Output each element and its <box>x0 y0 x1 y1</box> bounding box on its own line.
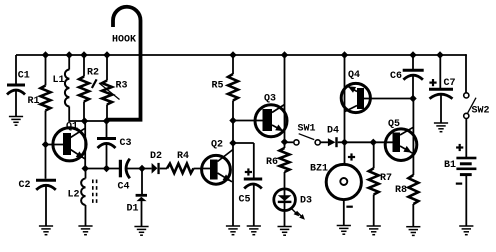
capacitor C2 <box>19 180 57 191</box>
wire SW1 to D4 <box>321 141 329 143</box>
diode D2 <box>150 151 162 174</box>
led D3 <box>274 189 312 211</box>
ground under Q2 emitter line <box>226 226 240 235</box>
ground under C2 <box>39 226 53 235</box>
ground under R7 <box>367 226 381 235</box>
wire rail to R5 <box>232 55 234 74</box>
resistor R5 <box>212 74 239 101</box>
node C6 Q4 Q5 junction <box>409 95 416 102</box>
ground under C1 <box>9 117 23 126</box>
wire L1 to horizontal bus <box>69 107 106 122</box>
wire rail to L1 <box>68 55 70 70</box>
capacitor C4 <box>118 159 130 193</box>
svg-text:Q4: Q4 <box>348 70 360 81</box>
wire rail to Q4 and BZ1 <box>344 55 346 165</box>
wire C4 to D2 <box>127 168 152 170</box>
resistor R8 <box>395 175 418 204</box>
wire R2 down <box>83 102 85 122</box>
capacitor C7 <box>429 78 456 99</box>
diode D4 <box>327 125 339 147</box>
svg-text:L1: L1 <box>53 75 65 86</box>
svg-text:HOOK: HOOK <box>112 35 136 46</box>
wire R5 down to ground <box>232 101 234 227</box>
node D1 top <box>138 165 145 172</box>
node Q1 base junction <box>42 141 49 148</box>
node R2 bottom junction <box>81 117 88 124</box>
node rail C7 <box>436 51 443 58</box>
svg-text:R5: R5 <box>212 80 224 91</box>
svg-text:Q5: Q5 <box>388 119 400 130</box>
node R3 C3 hook junction <box>103 117 110 124</box>
svg-text:R7: R7 <box>380 173 392 184</box>
transistor Q4 <box>341 70 370 113</box>
node rail Q4 <box>341 51 348 58</box>
wire Q1 collector-emitter vertical <box>84 121 86 169</box>
wire rail to C7 <box>439 55 441 88</box>
svg-text:D2: D2 <box>150 151 162 162</box>
resistor R1 <box>28 86 51 111</box>
svg-text:C7: C7 <box>444 78 456 89</box>
svg-text:R1: R1 <box>28 96 40 107</box>
wire R3 down <box>106 105 108 122</box>
ground under D3 <box>278 227 292 236</box>
node C3 bottom <box>103 165 110 172</box>
wire bus to C3 <box>106 121 108 137</box>
inductor L1 <box>53 70 70 107</box>
node rail R1 <box>42 51 49 58</box>
node rail C6 <box>409 51 416 58</box>
node Q3 base junction <box>229 117 236 124</box>
ground under C7 <box>434 123 448 132</box>
wire emitter bus to L2 <box>85 169 87 179</box>
wire Q5 collector-emitter line <box>412 99 414 176</box>
wire left drop to C1 <box>15 55 17 84</box>
svg-text:L2: L2 <box>68 189 80 200</box>
wire D1 to ground <box>141 201 143 227</box>
svg-text:Q2: Q2 <box>211 140 223 151</box>
node Q3 emitter junction <box>281 138 288 145</box>
node rail Q3 collector <box>281 51 288 58</box>
svg-text:C4: C4 <box>118 181 130 192</box>
svg-text:SW2: SW2 <box>472 106 490 117</box>
resistor R3 trimmer <box>92 79 128 104</box>
node L2 top <box>82 165 89 172</box>
svg-text:Q1: Q1 <box>66 122 78 133</box>
svg-text:SW1: SW1 <box>298 123 316 134</box>
wire rail to Q3 collector line <box>284 55 286 148</box>
capacitor C5 <box>239 168 263 205</box>
transistor Q5 <box>385 119 417 161</box>
svg-text:C6: C6 <box>390 71 402 82</box>
svg-text:D4: D4 <box>327 125 339 136</box>
node Q2 collector junction <box>229 139 236 146</box>
buzzer BZ1 <box>310 153 361 207</box>
wire SW2 to B1 <box>465 119 467 157</box>
wire Q4 base <box>364 98 413 100</box>
transistor Q2 <box>202 140 233 185</box>
capacitor C1 <box>7 70 30 116</box>
svg-text:R4: R4 <box>177 151 189 162</box>
wire R1 to Q1 base and C2 <box>45 111 47 179</box>
svg-text:B1: B1 <box>444 160 456 171</box>
node D4 BZ1 junction <box>341 139 348 146</box>
wire R6 to D3 <box>284 172 286 226</box>
wire Q1 emitter bus segment <box>85 168 119 170</box>
wire R8 to ground <box>412 204 414 226</box>
resistor R2 <box>79 68 99 102</box>
wire B1 to ground <box>465 176 467 226</box>
ground under C5 <box>247 226 261 235</box>
wire L2 to ground <box>85 205 87 226</box>
node rail L1 <box>66 51 73 58</box>
svg-text:D3: D3 <box>300 195 312 206</box>
ground under BZ1 <box>337 226 351 235</box>
wire node to Q5 base <box>345 141 393 143</box>
node rail R3 <box>103 51 110 58</box>
wire rail to R2 <box>83 55 85 77</box>
svg-text:R2: R2 <box>87 68 99 79</box>
transistor Q1 <box>46 122 87 161</box>
wire R7 to ground <box>373 195 375 227</box>
resistor R6 <box>266 148 290 172</box>
ground under L2 <box>78 226 92 235</box>
svg-text:C2: C2 <box>19 180 31 191</box>
wire C2 to ground <box>45 186 47 226</box>
wire BZ1 to ground <box>343 200 345 227</box>
resistor R4 <box>167 151 194 173</box>
wire Q2 collector to C5 <box>233 143 254 178</box>
wire Q3 emitter to SW1 <box>285 141 294 143</box>
node R7 junction <box>370 139 377 146</box>
wire top supply rail <box>16 54 466 56</box>
node rail R5 <box>229 51 236 58</box>
svg-text:R3: R3 <box>116 80 128 91</box>
ground under D1 <box>134 227 148 236</box>
ground under R8 <box>406 227 420 236</box>
capacitor C6 <box>390 70 424 82</box>
ground under B1 <box>459 226 473 235</box>
wire R4 to Q2 base <box>194 168 211 170</box>
wire bus to D1 <box>141 169 143 195</box>
svg-text:R8: R8 <box>395 185 407 196</box>
wire rail to C6 <box>412 55 414 69</box>
transistor Q3 <box>255 93 287 137</box>
svg-text:C3: C3 <box>120 138 132 149</box>
node rail R2 <box>80 51 87 58</box>
svg-text:D1: D1 <box>127 203 139 214</box>
svg-text:Q3: Q3 <box>264 93 276 104</box>
wire D2 to R4 <box>160 168 167 170</box>
resistor R7 <box>369 142 392 194</box>
svg-text:C1: C1 <box>18 70 30 81</box>
wire C5 to ground <box>253 185 255 227</box>
svg-text:C5: C5 <box>239 194 251 205</box>
led D3 arrows <box>291 208 305 219</box>
battery B1 <box>444 144 476 185</box>
svg-text:BZ1: BZ1 <box>310 164 328 175</box>
wire rail to R1 <box>45 55 47 86</box>
inductor L2 with core <box>68 179 97 205</box>
switch SW1 <box>294 123 321 145</box>
diode D1 <box>127 194 148 214</box>
wire C6 to node <box>412 76 414 99</box>
wire rail right corner to SW2 <box>465 55 467 93</box>
svg-text:R6: R6 <box>266 157 278 168</box>
wire C3 to emitter bus <box>106 144 108 169</box>
switch SW2 <box>464 93 490 119</box>
hook lever thick wire <box>107 7 141 120</box>
capacitor C3 <box>97 138 132 149</box>
wire Q3 base <box>233 120 263 122</box>
wire D4 to node <box>338 141 345 143</box>
wire C7 to ground <box>440 95 442 124</box>
wire rail to R3 <box>106 55 108 81</box>
